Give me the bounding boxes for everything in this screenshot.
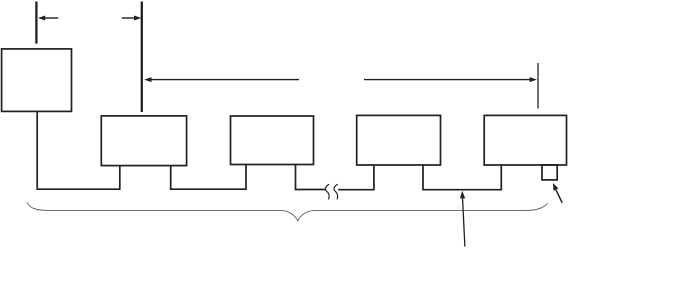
callout arrow to terminator xyxy=(556,190,562,203)
cable break squiggle 1 xyxy=(326,184,330,199)
wire: box 4 to box 5 xyxy=(423,165,501,190)
callout arrow to bus wire xyxy=(463,198,465,247)
cable break squiggle 2 xyxy=(334,184,338,199)
wire: box 2 to box 3 xyxy=(171,165,246,190)
dimension arrow right (points right at line B) xyxy=(122,17,135,19)
wire: drop from box 1 to bus and up into box 2 xyxy=(37,112,120,190)
trunk dimension line right segment (arrowhead at tick C) xyxy=(364,79,531,81)
wire: box 3 to cable break xyxy=(296,165,326,190)
device box 1 (host) xyxy=(2,49,72,112)
device box 3 xyxy=(231,116,314,165)
trunk dimension line left segment (arrowhead at line B) xyxy=(151,79,300,81)
wire: cable break to box 4 xyxy=(338,165,374,190)
underbrace (bus length) xyxy=(27,202,548,220)
dimension tick line C xyxy=(537,63,539,109)
device box 5 xyxy=(484,115,566,165)
bus terminator block xyxy=(542,165,557,180)
dimension arrow left (points left at line A) xyxy=(45,17,59,19)
device box 2 xyxy=(101,116,186,166)
stub dimension boundary line A xyxy=(35,2,37,44)
device box 4 xyxy=(357,115,441,165)
trunk dimension boundary line B xyxy=(141,2,143,113)
